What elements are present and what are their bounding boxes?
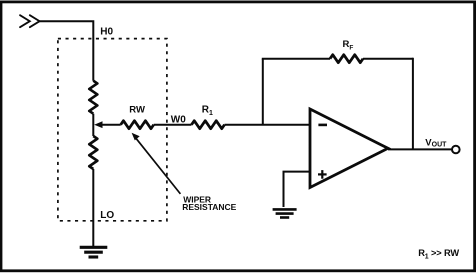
wire input to H0 node: [40, 21, 94, 80]
wire op-amp output: [388, 148, 452, 150]
op-amp inverting pin mark: [318, 124, 327, 127]
wiper resistance annotation arrow: [132, 133, 181, 194]
svg-text:RESISTANCE: RESISTANCE: [182, 202, 236, 212]
wire lower element to ground: [92, 169, 94, 246]
op-amp non-inverting pin mark: [318, 170, 327, 179]
svg-text:RW: RW: [129, 104, 145, 115]
ground (op-amp non-inverting): [273, 209, 297, 217]
dashed potentiometer box: [58, 39, 167, 221]
wire upper element to wiper node: [92, 114, 94, 136]
wire feedback left vertical: [262, 59, 264, 125]
resistor RW (wiper resistance): [121, 121, 154, 129]
wire RW to R1 (node W0): [154, 124, 192, 126]
wire R1 to op-amp inverting input: [225, 124, 311, 126]
wire feedback top left segment: [262, 58, 330, 60]
svg-text:LO: LO: [100, 210, 114, 221]
svg-text:H0: H0: [100, 27, 113, 38]
svg-text:W0: W0: [171, 114, 186, 125]
op-amp U1: [310, 109, 388, 188]
potentiometer upper element resistor: [89, 81, 97, 114]
potentiometer lower element resistor: [89, 136, 97, 169]
wire feedback right vertical to output: [412, 58, 414, 150]
wiper arrow into potentiometer: [94, 121, 121, 128]
wire non-inverting input to ground: [284, 172, 311, 207]
wire feedback top right segment: [363, 58, 413, 60]
input arrow chevrons: [20, 15, 40, 27]
resistor RF: [330, 55, 363, 63]
output terminal circle: [452, 146, 460, 154]
resistor R1: [192, 121, 225, 129]
ground (left, below potentiometer): [80, 247, 108, 257]
